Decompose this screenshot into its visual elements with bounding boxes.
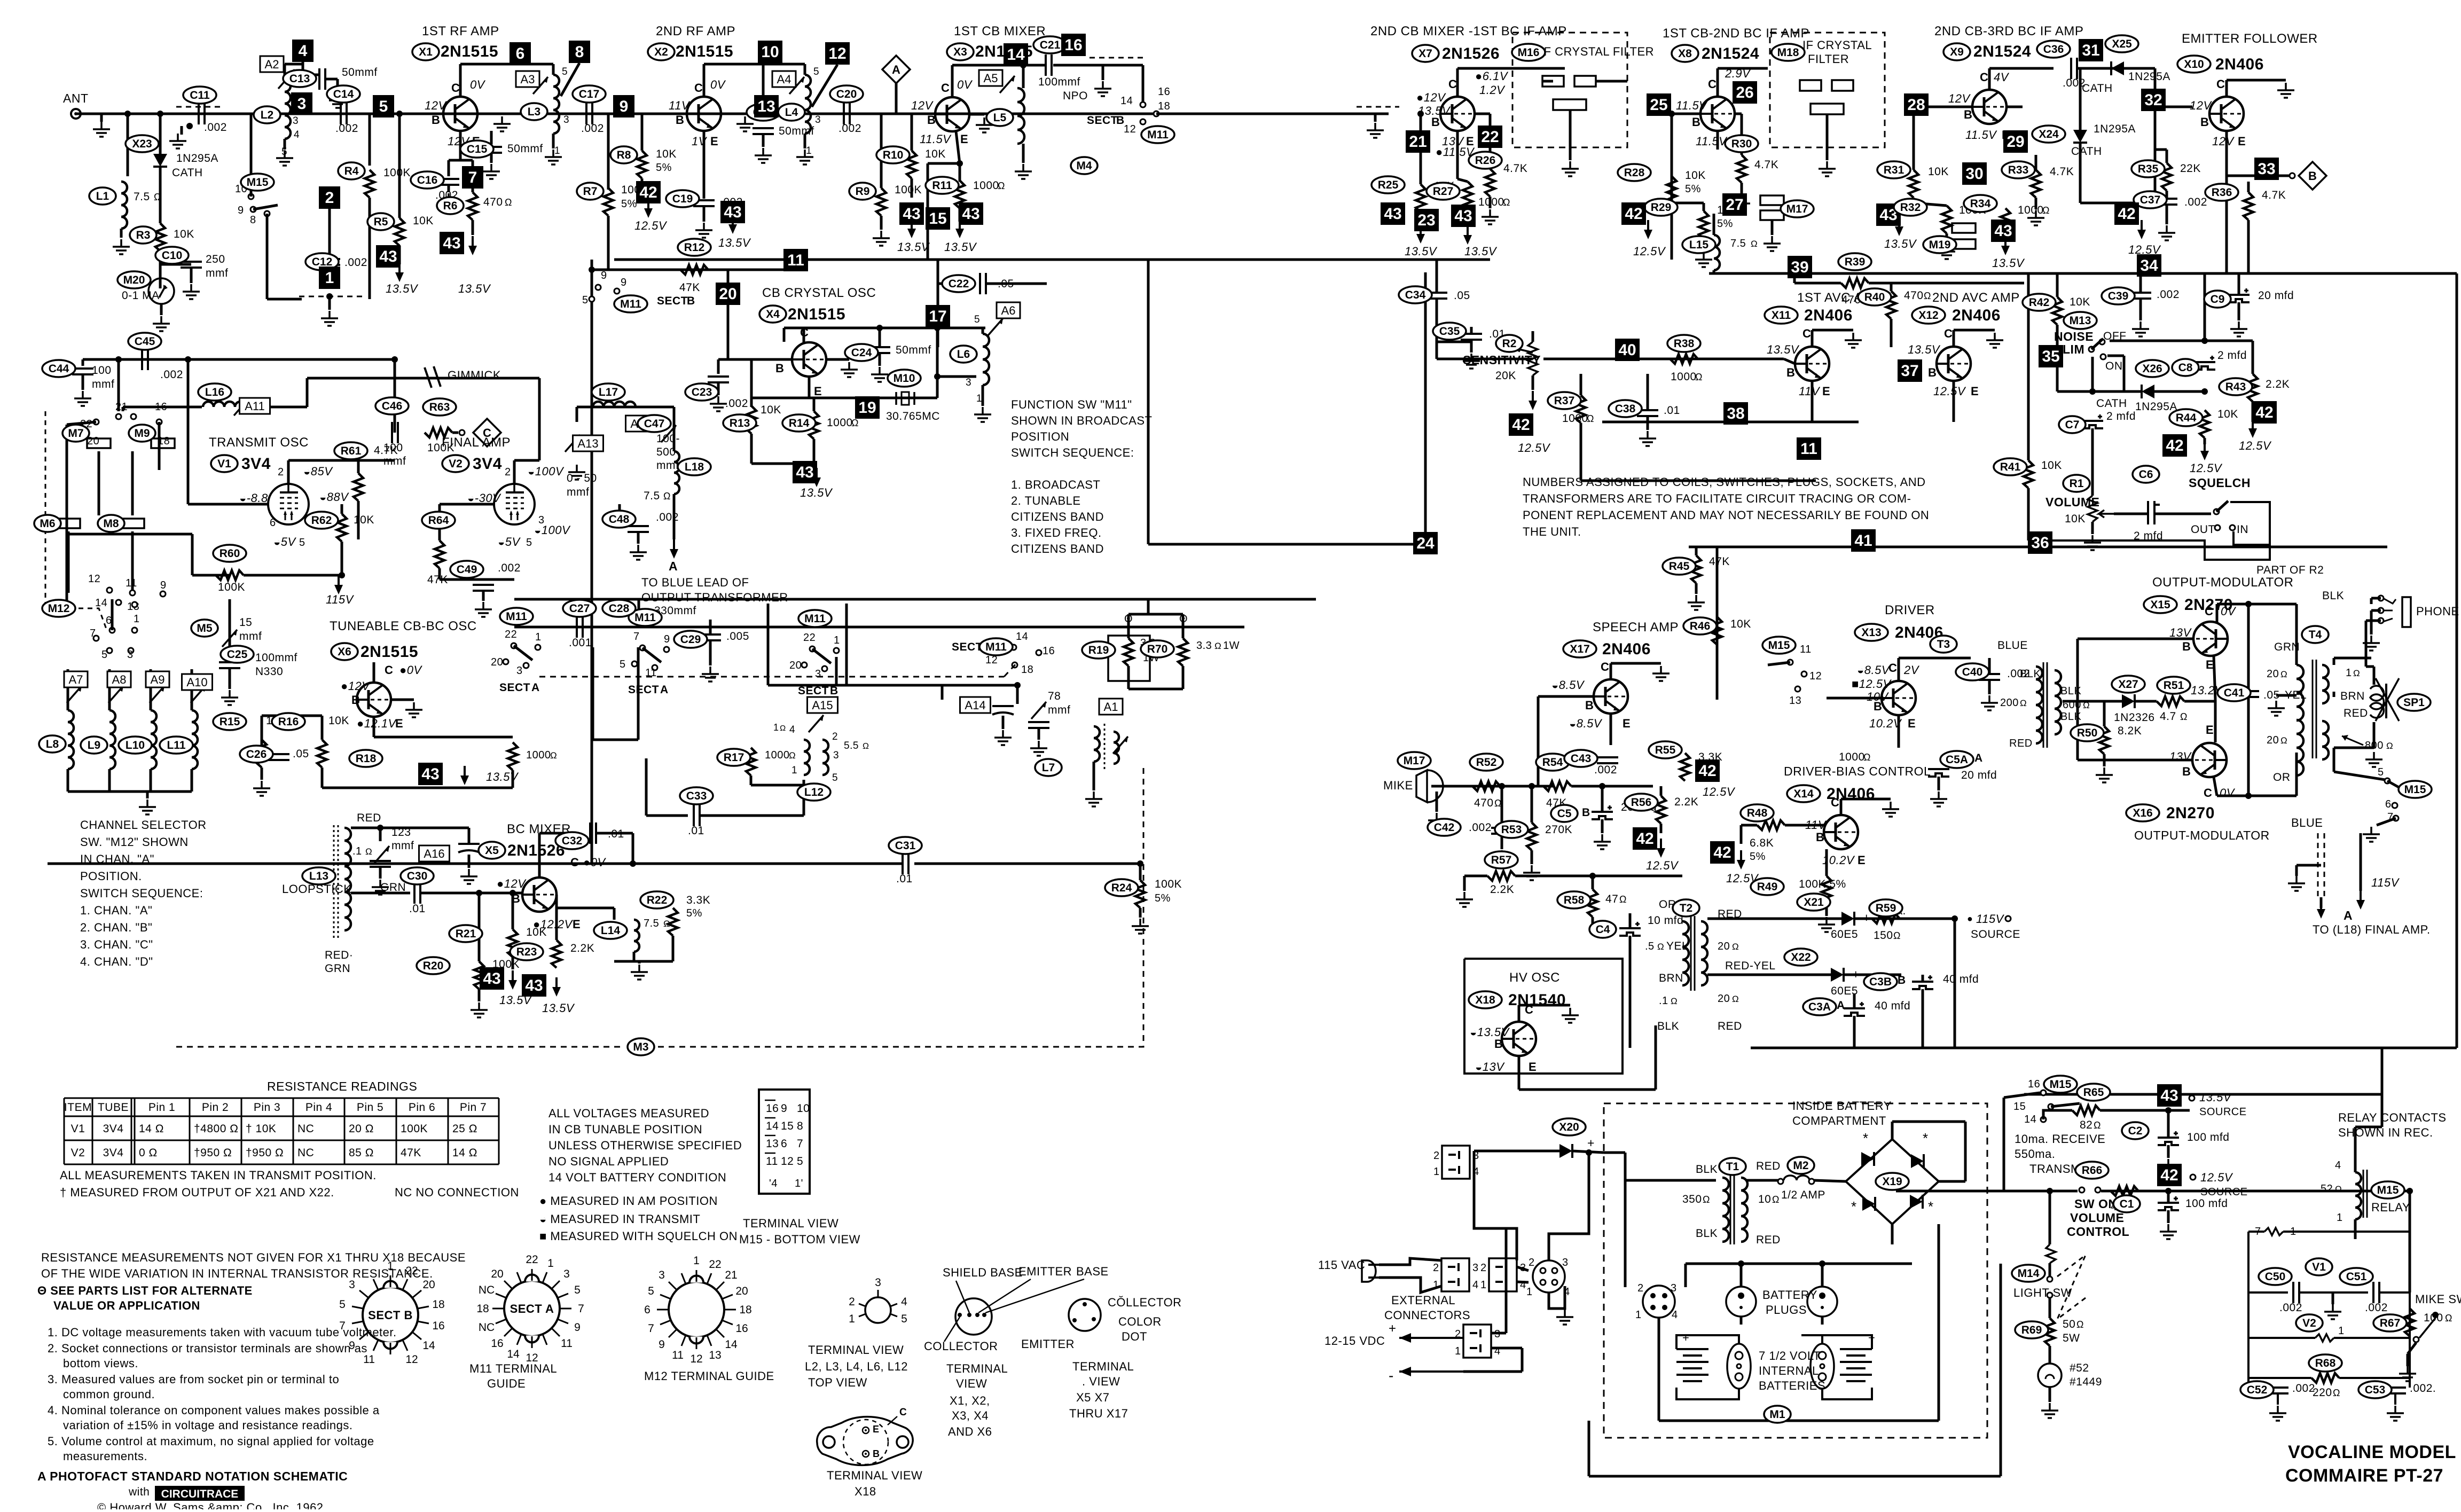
wire — [351, 827, 406, 829]
resistor R3 — [155, 223, 165, 251]
transistor X11 2N406 — [1795, 347, 1829, 381]
svg-text:R40: R40 — [1864, 291, 1885, 303]
resistor R52 — [1472, 781, 1500, 791]
wire — [2295, 656, 2298, 665]
svg-text:R60: R60 — [220, 547, 240, 560]
svg-text:M20: M20 — [123, 274, 145, 286]
wire — [2156, 513, 2211, 515]
svg-text:M15: M15 — [247, 176, 269, 189]
svg-text:C30: C30 — [407, 870, 428, 882]
inductor T3 primary — [2036, 667, 2042, 743]
svg-text:A15: A15 — [812, 699, 833, 712]
wire — [357, 460, 360, 473]
capacitor C21 label — [1033, 36, 1067, 53]
node tag 37 — [1898, 359, 1922, 382]
capacitor C1 label — [2113, 1195, 2140, 1212]
wire — [478, 893, 481, 961]
arrow — [728, 215, 737, 234]
wire — [284, 64, 286, 76]
svg-text:R16: R16 — [278, 716, 299, 728]
wire — [1869, 282, 2024, 285]
resistor R58 — [1588, 889, 1597, 917]
capacitor C20 label — [830, 85, 863, 103]
resistor R53 label — [1495, 821, 1528, 838]
ground X10 — [2277, 83, 2294, 98]
svg-text:43: 43 — [724, 203, 741, 221]
svg-text:12: 12 — [781, 1155, 794, 1168]
svg-text:R9: R9 — [856, 185, 870, 198]
svg-text:C51: C51 — [2346, 1271, 2367, 1283]
svg-text:GIMMICK: GIMMICK — [448, 369, 501, 382]
svg-text:B: B — [676, 113, 684, 127]
svg-text:CATH: CATH — [2082, 82, 2113, 95]
transistor X14 2N406 — [1824, 815, 1858, 849]
wire — [2049, 1387, 2051, 1402]
inductor T3 secondary — [2055, 670, 2061, 734]
svg-text:2.2K: 2.2K — [570, 942, 594, 954]
wire — [1686, 1263, 1912, 1265]
inductor L18 label — [678, 458, 711, 475]
svg-text:9: 9 — [349, 1339, 355, 1352]
inductor L4 label — [778, 104, 805, 121]
ground SP1 — [2365, 752, 2382, 767]
svg-text:27: 27 — [1726, 196, 1743, 214]
alignment A10 — [182, 674, 213, 690]
varcap M5 label — [191, 620, 218, 637]
svg-text:20: 20 — [1718, 993, 1730, 1005]
svg-text:.002: .002 — [1594, 764, 1617, 776]
wire — [641, 114, 644, 151]
svg-text:12V: 12V — [2190, 99, 2212, 112]
wire — [303, 74, 319, 76]
wire — [2297, 864, 2321, 867]
capacitor C5A label — [1940, 751, 1973, 768]
wire — [2276, 694, 2297, 697]
battery wires — [1676, 1335, 1872, 1399]
svg-text:C22: C22 — [949, 278, 969, 290]
svg-text:V1: V1 — [217, 458, 231, 470]
svg-text:L3: L3 — [528, 106, 541, 118]
svg-text:Ω: Ω — [365, 847, 372, 857]
svg-text:HV OSC: HV OSC — [1509, 970, 1560, 985]
svg-text:8.2K: 8.2K — [2118, 725, 2142, 737]
svg-text:3: 3 — [1472, 1262, 1479, 1274]
ground L14 — [631, 965, 648, 980]
diode X23 label — [126, 135, 159, 152]
resistor R23 — [552, 940, 561, 968]
wire — [1002, 716, 1005, 729]
svg-text:C26: C26 — [246, 748, 267, 761]
svg-text:2: 2 — [1433, 1150, 1440, 1162]
svg-text:.002: .002 — [2279, 1302, 2302, 1314]
svg-text:3: 3 — [297, 95, 307, 113]
wire — [959, 208, 961, 222]
svg-text:BLUE: BLUE — [2291, 816, 2323, 829]
crystal M9 label — [129, 425, 155, 442]
svg-text:■ MEASURED WITH SQUELCH ON: ■ MEASURED WITH SQUELCH ON — [539, 1229, 738, 1243]
svg-text:10K: 10K — [761, 404, 781, 416]
svg-text:C: C — [694, 81, 703, 95]
svg-text:PONENT REPLACEMENT AND MAY NOT: PONENT REPLACEMENT AND MAY NOT NECESSARI… — [1523, 508, 1929, 522]
svg-text:220: 220 — [2313, 1386, 2332, 1399]
resistor R18 label — [349, 750, 382, 767]
svg-text:10: 10 — [797, 1102, 810, 1115]
svg-text:43: 43 — [796, 464, 813, 481]
wire — [1501, 786, 1503, 825]
svg-text:2: 2 — [832, 731, 838, 742]
svg-text:X17: X17 — [1570, 643, 1589, 655]
wire — [938, 283, 974, 285]
capacitor C46 label — [375, 397, 409, 414]
svg-text:11: 11 — [1800, 440, 1817, 458]
ground R53 — [1523, 865, 1540, 880]
wire — [262, 715, 322, 717]
svg-text:C32: C32 — [562, 835, 583, 847]
svg-text:M15: M15 — [1768, 639, 1790, 652]
wire — [82, 374, 84, 390]
svg-text:C1: C1 — [2120, 1198, 2134, 1210]
transistor X5 2N1526 — [522, 878, 557, 912]
svg-text:82: 82 — [2080, 1119, 2092, 1131]
svg-text:100K: 100K — [218, 581, 245, 593]
svg-text:BATTERIES: BATTERIES — [1759, 1379, 1825, 1392]
svg-text:2 mfd: 2 mfd — [2106, 410, 2136, 422]
wire 42 rail — [1896, 1190, 2078, 1193]
ground connector — [1556, 1310, 1573, 1325]
transistor X11 label — [1765, 307, 1798, 324]
svg-text:C31: C31 — [895, 840, 916, 852]
resistor R62 label — [305, 512, 338, 529]
node tag 1 — [319, 267, 340, 289]
svg-text:◒13V: ◒13V — [1475, 1060, 1505, 1074]
ground R45 — [1688, 595, 1705, 610]
wire — [1128, 688, 1183, 691]
capacitor C53 label — [2358, 1381, 2392, 1398]
wire — [1467, 209, 1469, 224]
wire — [2332, 1292, 2334, 1304]
svg-text:C4: C4 — [1596, 923, 1610, 936]
wire — [672, 936, 675, 961]
svg-text:M14: M14 — [2018, 1267, 2040, 1280]
capacitor 78mmf — [1028, 722, 1049, 728]
svg-text:V2: V2 — [2302, 1317, 2316, 1329]
wire — [673, 494, 676, 539]
wire — [357, 501, 360, 539]
resistor R14 label — [782, 414, 816, 432]
svg-text:A10: A10 — [186, 676, 207, 689]
resistor R51 — [2157, 696, 2184, 706]
node tag 43 — [480, 967, 504, 990]
node tag 7 — [462, 166, 483, 189]
svg-text:NC: NC — [479, 1321, 495, 1334]
svg-text:X15: X15 — [2150, 599, 2170, 611]
svg-text:.002: .002 — [1469, 821, 1492, 834]
wire — [1038, 728, 1040, 740]
svg-text:16: 16 — [1158, 86, 1170, 98]
wire — [2167, 1210, 2170, 1223]
svg-text:1N2326: 1N2326 — [2114, 711, 2155, 724]
wire — [369, 114, 371, 166]
svg-text:R48: R48 — [1747, 807, 1768, 819]
svg-text:L4: L4 — [785, 106, 798, 119]
wire — [2370, 598, 2373, 604]
svg-text:M16: M16 — [1518, 46, 1540, 59]
trimmer C47 — [661, 425, 676, 442]
resistor R40 label — [1858, 288, 1891, 305]
trimmer A6 — [988, 318, 1003, 335]
transistor view A — [944, 1279, 1084, 1342]
phone jack — [2383, 597, 2411, 627]
wire — [1436, 260, 1438, 293]
svg-text:measurements.: measurements. — [63, 1450, 147, 1463]
inductor L7 label — [1035, 759, 1062, 776]
wire — [266, 214, 269, 299]
arrow A — [670, 539, 678, 559]
svg-text:100K: 100K — [1155, 878, 1182, 890]
wire vertical right q1 — [1147, 260, 1150, 544]
wire — [421, 892, 522, 895]
svg-text:20: 20 — [735, 1285, 748, 1297]
wire — [1825, 849, 1828, 876]
diode X27 label — [2112, 676, 2145, 693]
svg-text:●12V: ●12V — [1416, 91, 1446, 104]
wire — [1053, 64, 1143, 67]
net A diamond — [882, 56, 910, 83]
wire — [911, 114, 913, 151]
svg-text:A PHOTOFACT STANDARD NOTATI: A PHOTOFACT STANDARD NOTATION SCHEMATIC — [37, 1469, 348, 1483]
svg-text:9: 9 — [664, 633, 670, 645]
wire A14 drop — [941, 685, 944, 700]
capacitor C14 — [341, 103, 347, 124]
ground C13 — [329, 93, 346, 108]
svg-text:3: 3 — [563, 1268, 570, 1280]
wire — [2049, 1346, 2051, 1363]
resistor R31 label — [1877, 161, 1910, 178]
terminal view M15 box — [759, 1090, 810, 1194]
svg-text:R21: R21 — [456, 928, 476, 940]
svg-text:10K: 10K — [2217, 408, 2238, 420]
svg-text:R46: R46 — [1690, 620, 1711, 632]
svg-text:X4: X4 — [766, 308, 780, 320]
wire — [717, 359, 720, 374]
capacitor C40 — [1979, 674, 2000, 680]
wire — [762, 64, 765, 104]
wire — [82, 359, 84, 366]
wire c2 — [1517, 1282, 1529, 1282]
svg-text:3.3: 3.3 — [1196, 640, 1212, 652]
inductor T4 secondary lower — [2322, 721, 2329, 759]
resistor R24 label — [1105, 879, 1138, 896]
wire — [1844, 974, 1901, 976]
svg-text:0 Ω: 0 Ω — [139, 1147, 158, 1159]
wire diode row — [2057, 390, 2142, 393]
wire — [1989, 67, 2054, 70]
wire — [1470, 327, 1473, 334]
wire — [1740, 1264, 1743, 1287]
wire — [1629, 936, 1632, 948]
wire — [895, 83, 898, 114]
svg-text:B: B — [687, 295, 695, 307]
resistor R33 — [2031, 170, 2041, 198]
svg-text:9: 9 — [659, 1338, 665, 1351]
svg-text:M15: M15 — [2404, 784, 2426, 796]
svg-text:SHOWN IN BROADCAST: SHOWN IN BROADCAST — [1011, 414, 1152, 427]
resistor R28 label — [1618, 164, 1651, 181]
alignment A13 — [573, 435, 604, 451]
resistor R22 — [668, 908, 678, 936]
wire — [321, 716, 324, 740]
inductor L16 label — [198, 383, 231, 401]
svg-text:NC: NC — [297, 1123, 314, 1135]
node tag 20 — [716, 283, 740, 305]
svg-text:8: 8 — [250, 214, 256, 226]
svg-text:RELAY CONTACTS: RELAY CONTACTS — [2338, 1111, 2447, 1124]
capacitor C10 label — [155, 247, 189, 264]
svg-text:5%: 5% — [1750, 851, 1766, 863]
capacitor C13 label — [283, 70, 316, 87]
ground ant — [93, 122, 110, 137]
svg-text:20: 20 — [422, 1279, 435, 1291]
wire — [100, 114, 103, 122]
wire — [379, 867, 382, 879]
svg-text:A: A — [660, 684, 669, 696]
svg-text:R27: R27 — [1433, 185, 1454, 198]
svg-text:22: 22 — [803, 632, 816, 644]
svg-text:1: 1 — [849, 1313, 855, 1325]
svg-text:SECT: SECT — [798, 685, 829, 697]
resistor R29 label — [1644, 199, 1678, 216]
terminal view coils — [865, 1297, 891, 1323]
svg-text:.002: .002 — [725, 397, 748, 410]
arrow 115V — [334, 575, 343, 594]
resistor R38 label — [1667, 335, 1700, 352]
wire — [472, 220, 474, 235]
svg-text:CONTROL: CONTROL — [2067, 1225, 2129, 1239]
svg-text:4: 4 — [1472, 1279, 1479, 1291]
svg-text:14 Ω: 14 Ω — [139, 1123, 164, 1135]
alignment A5 — [979, 70, 1002, 86]
svg-text:1W: 1W — [1223, 640, 1240, 652]
svg-text:1: 1 — [834, 634, 840, 646]
arrow — [1895, 217, 1903, 236]
svg-text:7: 7 — [468, 169, 477, 186]
svg-text:22K: 22K — [2180, 162, 2201, 175]
svg-text:5: 5 — [648, 1285, 654, 1297]
capacitor C31 label — [889, 837, 922, 854]
wire — [750, 359, 753, 407]
svg-text:.002: .002 — [2365, 1302, 2388, 1314]
svg-text:12: 12 — [88, 573, 100, 585]
node tag 43 — [1381, 202, 1405, 225]
wire emitter X5 r — [557, 907, 614, 910]
svg-text:3: 3 — [815, 668, 821, 680]
wire — [2333, 748, 2335, 772]
svg-text:5: 5 — [339, 1298, 346, 1311]
node tag 33 — [2254, 158, 2279, 180]
svg-text:1: 1 — [791, 765, 797, 776]
svg-text:A6: A6 — [1001, 304, 1016, 317]
svg-text:R57: R57 — [1491, 854, 1512, 866]
capacitor C30 — [414, 882, 420, 904]
svg-text:14 Ω: 14 Ω — [452, 1147, 477, 1159]
wire — [2027, 488, 2030, 540]
svg-text:14: 14 — [766, 1120, 779, 1132]
wire — [373, 662, 375, 683]
svg-text:5.5: 5.5 — [844, 740, 859, 751]
wire — [835, 657, 838, 685]
svg-text:4V: 4V — [1994, 70, 2010, 84]
resistor R54 — [1543, 781, 1571, 791]
svg-text:C33: C33 — [686, 790, 707, 802]
svg-text:R41: R41 — [2000, 461, 2021, 473]
lamp — [2038, 1364, 2062, 1387]
svg-text:X19: X19 — [1882, 1176, 1902, 1188]
svg-text:42: 42 — [1713, 844, 1731, 861]
svg-text:SECT: SECT — [952, 641, 983, 653]
wire — [448, 160, 450, 176]
svg-text:16: 16 — [491, 1337, 503, 1350]
wire — [1928, 106, 1972, 108]
wire — [1707, 918, 1841, 920]
wire c — [1517, 1267, 1529, 1271]
wire — [1374, 114, 1377, 122]
svg-text:2N406: 2N406 — [1804, 307, 1853, 324]
inductor L9 label — [81, 737, 107, 754]
svg-text:20: 20 — [1718, 941, 1730, 952]
ground C25 — [221, 690, 238, 705]
svg-text:*: * — [1863, 1130, 1869, 1146]
svg-text:1000: 1000 — [1839, 751, 1865, 763]
resistor R37 label — [1548, 392, 1581, 409]
wire — [285, 63, 302, 66]
svg-text:0V: 0V — [2221, 605, 2237, 618]
wire — [983, 327, 985, 330]
svg-text:2N1526: 2N1526 — [1442, 45, 1500, 62]
arrow A out — [2317, 899, 2325, 919]
svg-text:13.5V: 13.5V — [944, 240, 977, 254]
arrow — [2200, 441, 2209, 460]
wire — [1580, 374, 1582, 395]
svg-text:◒8.5V: ◒8.5V — [1551, 678, 1585, 692]
svg-text:CITIZENS BAND: CITIZENS BAND — [1011, 542, 1104, 555]
svg-text:47K: 47K — [401, 1147, 421, 1159]
wire — [1611, 662, 1661, 665]
wire — [229, 599, 231, 651]
capacitor C16 label — [411, 171, 444, 189]
filter M16 dashed box — [1512, 33, 1627, 147]
wire — [250, 114, 253, 197]
svg-text:● MEASURED IN AM POSITION: ● MEASURED IN AM POSITION — [539, 1194, 718, 1208]
wire off rail — [2110, 340, 2253, 342]
arrow 13.5V — [468, 236, 477, 255]
wire — [2252, 402, 2254, 422]
svg-text:M13: M13 — [2070, 315, 2091, 327]
svg-text:E: E — [814, 385, 822, 398]
resistor R19 — [1124, 638, 1133, 666]
wire — [1093, 762, 1095, 774]
ground C37 — [2158, 225, 2175, 240]
switch M15 label 2 — [2044, 1076, 2077, 1093]
svg-text:RED: RED — [1718, 1020, 1742, 1032]
svg-text:1000: 1000 — [2018, 204, 2044, 216]
svg-text:R64: R64 — [428, 514, 449, 527]
svg-text:X7: X7 — [1418, 48, 1432, 60]
wire — [1939, 1180, 1965, 1183]
wire — [1470, 340, 1473, 352]
transistor X4 2N1515 — [792, 342, 826, 377]
svg-text:SECT: SECT — [628, 684, 659, 696]
trimmer A11 — [234, 398, 249, 416]
